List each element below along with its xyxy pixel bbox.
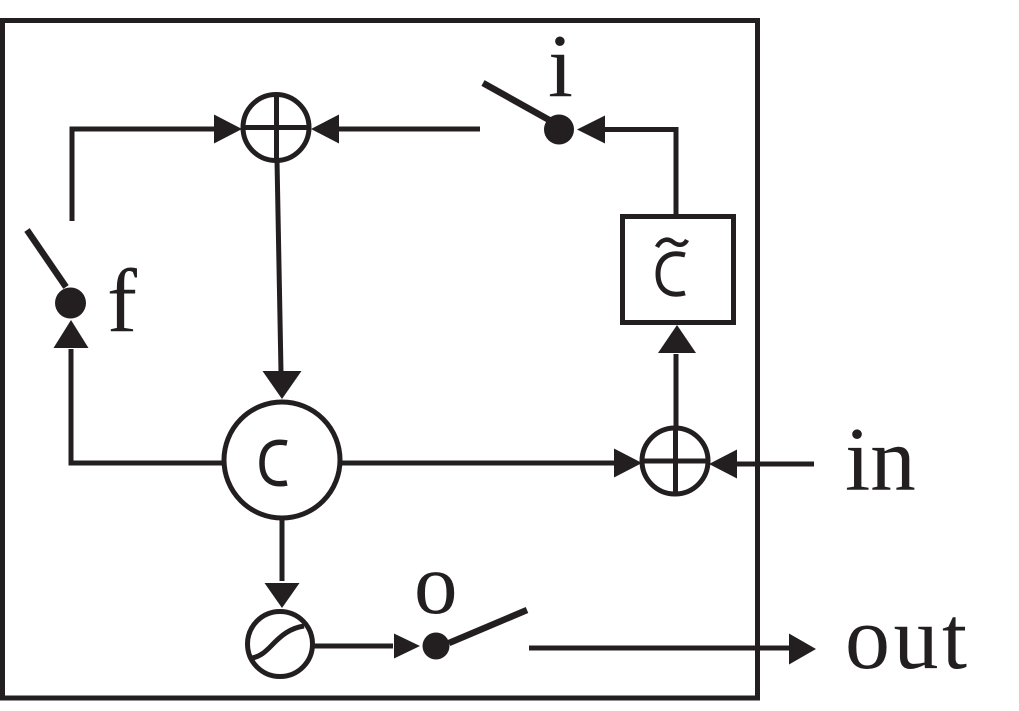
memory cell C xyxy=(224,402,340,518)
label C-tilde xyxy=(657,240,687,294)
arrowhead into adder A2 left xyxy=(614,449,642,478)
cell boundary box xyxy=(3,21,758,699)
switch o lever xyxy=(449,610,527,643)
svg-text:in: in xyxy=(845,409,916,510)
switch f lever xyxy=(27,230,66,287)
arrowhead into C-tilde bottom xyxy=(658,325,696,353)
arrowhead into switch i dot xyxy=(577,116,605,144)
block C-tilde xyxy=(623,217,734,323)
wire cell C to sigmoid xyxy=(280,518,285,581)
arrowhead into adder A1 right xyxy=(311,115,339,144)
arrowhead to out xyxy=(789,634,816,665)
svg-text:i: i xyxy=(548,17,573,116)
switch i contact dot xyxy=(544,115,574,145)
wire cell C to f-switch xyxy=(71,349,222,463)
sigmoid unit xyxy=(248,612,313,677)
switch i lever xyxy=(483,83,551,121)
arrowhead into adder A1 left xyxy=(214,115,242,144)
switch f contact dot xyxy=(55,288,86,319)
svg-text:out: out xyxy=(845,589,971,688)
adder A2 xyxy=(642,428,708,494)
wire o-switch to out xyxy=(529,646,789,651)
svg-text:o: o xyxy=(414,535,458,632)
switch o contact dot xyxy=(423,633,450,660)
wire cell C to adder A2 xyxy=(342,461,615,466)
wire C-tilde to switch i xyxy=(604,130,676,219)
wire adder A1 to cell C xyxy=(277,160,281,372)
arrowhead into f-switch dot xyxy=(54,320,89,348)
arrowhead into adder A2 right xyxy=(709,450,737,479)
label C xyxy=(262,442,287,484)
arrowhead into sigmoid top xyxy=(265,583,300,608)
wire in to adder A2 xyxy=(737,462,814,467)
svg-text:f: f xyxy=(107,252,137,351)
wire sigmoid to o-switch xyxy=(313,644,393,649)
wire i-switch to adder A1 xyxy=(338,127,480,132)
wire adder A2 to C-tilde xyxy=(674,354,679,428)
arrowhead into cell C top xyxy=(263,371,302,399)
wire f-switch to adder A1 xyxy=(72,129,215,221)
arrowhead into o-switch dot xyxy=(394,634,420,659)
adder A1 xyxy=(243,95,309,161)
